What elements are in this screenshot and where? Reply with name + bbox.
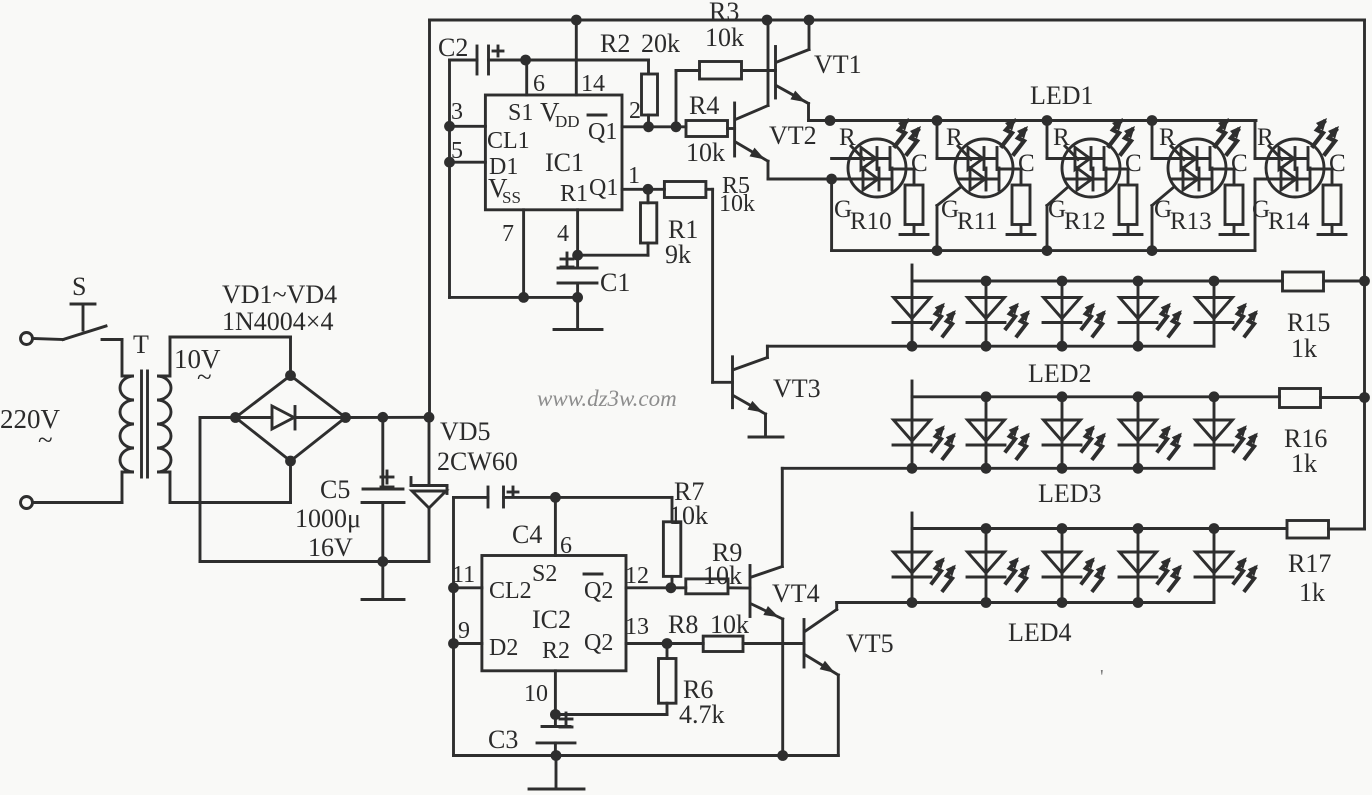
wire top supply rail (430, 19, 1365, 22)
resistor R7 (671, 497, 674, 521)
light emission arrows LED4-2 (1006, 557, 1030, 590)
wire pin 4 (576, 210, 579, 268)
svg-text:1000μ: 1000μ (295, 504, 361, 533)
node LED3 top rail x=1214 (1209, 391, 1220, 402)
svg-text:10k: 10k (710, 610, 749, 639)
resistor R15 (1283, 272, 1324, 291)
wire LED1 red anode rail (830, 119, 1256, 122)
resistor R9 (686, 579, 728, 594)
svg-text:~: ~ (38, 425, 53, 455)
svg-text:14: 14 (581, 71, 605, 97)
dual-colour flashing LED LED1-4 (1152, 121, 1234, 198)
svg-text:9k: 9k (665, 240, 691, 269)
wire C2 left lead (450, 59, 478, 62)
svg-text:1N4004×4: 1N4004×4 (222, 307, 333, 336)
svg-text:1k: 1k (1291, 334, 1317, 363)
node pin4 / R1 junction (572, 250, 583, 261)
light emission arrows LED4-3 (1082, 557, 1106, 590)
capacitor C2 (476, 46, 479, 74)
node VT1 emitter to LED1 rail (825, 115, 836, 126)
polarity mark C1 (561, 258, 573, 261)
polarity mark C5 (381, 476, 393, 479)
wire R14 to ground (1331, 225, 1334, 234)
svg-text:6: 6 (560, 533, 572, 559)
node LED4 top rail x=1062 (1057, 523, 1068, 534)
svg-text:1k: 1k (1299, 578, 1325, 607)
wire R17 to right rail (1329, 528, 1365, 531)
LED LED4-1 (893, 529, 931, 603)
wire C2 to R2 top (489, 59, 649, 62)
ground below R12 (1114, 233, 1142, 236)
wire VT2 node down to green bus (830, 179, 833, 251)
node C5 bottom junction (377, 556, 388, 567)
wire pin 12 (Q2bar) (626, 586, 686, 589)
node LED2 top rail x=986 (981, 276, 992, 287)
node VT2 collector on top rail (762, 15, 773, 26)
wire R16 to right rail (1321, 396, 1365, 399)
wire R15 to right rail (1324, 280, 1365, 283)
resistor R6 (666, 703, 669, 714)
node VT2 emitter to LED1 green lead (826, 174, 837, 185)
wire pin 11 (454, 586, 482, 589)
node VT1 collector on top rail (804, 15, 815, 26)
svg-text:VD1~VD4: VD1~VD4 (222, 280, 337, 309)
switch S actuator stem (82, 304, 85, 330)
wire C5 to ground (381, 562, 384, 599)
svg-text:VT5: VT5 (846, 629, 894, 658)
svg-text:C: C (911, 150, 928, 177)
svg-text:R: R (839, 124, 856, 151)
light emission arrows LED1-1 (895, 118, 921, 154)
svg-text:16V: 16V (308, 533, 353, 562)
LED LED4-2 (967, 529, 1005, 603)
wire switch fixed contact (102, 338, 122, 341)
wire LED4 cathode rail (837, 601, 1214, 604)
light emission arrows LED2-5 (1234, 303, 1258, 336)
wire to R3 left (676, 69, 700, 72)
svg-text:': ' (1100, 666, 1104, 688)
wire R8 to VT5 base (743, 642, 804, 645)
resistor R1 (647, 189, 650, 203)
transformer T primary winding (120, 340, 134, 503)
transistor VT2 (733, 103, 736, 156)
wire bridge output (346, 416, 430, 419)
svg-text:20k: 20k (641, 29, 680, 58)
IC U2 (IC2) body (482, 556, 626, 671)
svg-text:R14: R14 (1268, 208, 1310, 235)
light emission arrows LED4-4 (1158, 557, 1182, 590)
LED LED2-1 (893, 281, 931, 346)
resistor R17 (1287, 521, 1329, 539)
node bridge top vertex (285, 370, 296, 381)
switch S blade (63, 326, 106, 340)
node R16 on right rail (1359, 392, 1370, 403)
svg-text:Q1: Q1 (588, 119, 617, 145)
LED LED3-3 (1043, 397, 1081, 469)
svg-text:R2: R2 (600, 29, 630, 58)
svg-text:VD5: VD5 (440, 417, 491, 446)
node pin7 junction (518, 292, 529, 303)
svg-text:Q2: Q2 (584, 578, 613, 604)
node R7 bottom junction (666, 582, 677, 593)
LED LED3-2 (967, 397, 1005, 469)
wire green lead LED1-5 (1254, 179, 1257, 251)
svg-text:R1: R1 (560, 181, 588, 207)
wire C3 to ground (555, 756, 558, 788)
node bridge left vertex (230, 412, 241, 423)
wire green lead LED1-2 (936, 206, 939, 251)
wire green lead LED1-4 (1151, 206, 1154, 251)
svg-text:11: 11 (452, 562, 475, 588)
wire down left return (199, 418, 202, 562)
node R2 bottom junction (643, 121, 654, 132)
node LED4 top rail x=1214 (1209, 523, 1220, 534)
light emission arrows LED3-3 (1082, 425, 1106, 458)
wire stub above LED4 first anode (911, 513, 914, 529)
LED LED3-4 (1119, 397, 1157, 469)
dual-colour flashing LED LED1-5 (1255, 121, 1332, 198)
svg-text:4: 4 (557, 221, 569, 247)
svg-text:2CW60: 2CW60 (437, 447, 518, 476)
resistor R11 (1012, 185, 1030, 225)
ground below C1 (554, 328, 602, 331)
svg-text:9: 9 (458, 618, 470, 644)
LED LED3-5 (1195, 397, 1233, 469)
wire R5 right (706, 188, 713, 191)
svg-text:6: 6 (533, 71, 545, 97)
LED LED2-4 (1119, 281, 1157, 346)
svg-text:C3: C3 (488, 725, 518, 754)
wire pin 7 (522, 210, 525, 298)
node R15 on right rail (1359, 276, 1370, 287)
LED LED4-4 (1119, 529, 1157, 603)
node LED4 bottom rail x=912 (907, 597, 918, 608)
wire right supply rail (1363, 20, 1366, 529)
overbar of Q1bar (588, 114, 606, 117)
light emission arrows LED3-5 (1234, 425, 1258, 458)
svg-text:R12: R12 (1064, 208, 1106, 235)
polarity mark C3 (560, 718, 572, 721)
wire LED3 cathode rail (782, 467, 1214, 470)
ground below VT3 (749, 436, 783, 439)
light emission arrows LED1-3 (1109, 118, 1135, 154)
wire from top terminal to switch blade (33, 339, 64, 340)
wire pin 13 (Q2) (626, 642, 703, 645)
resistor R3 (700, 62, 742, 80)
node LED1 bottom rail at x=1047 (1042, 245, 1053, 256)
svg-text:R: R (1053, 124, 1070, 151)
node LED2 bottom rail x=912 (907, 341, 918, 352)
resistor R4 (686, 121, 728, 137)
wire IC2 bottom return (454, 754, 839, 757)
node LED1 top rail at x=1152 (1147, 115, 1158, 126)
svg-text:VT4: VT4 (772, 579, 820, 608)
ground below R13 (1220, 233, 1248, 236)
polarity mark C2 (493, 50, 503, 53)
ground below R10 (900, 233, 928, 236)
resistor R2 (647, 60, 650, 74)
svg-text:C5: C5 (320, 475, 350, 504)
wire stub above LED3 first anode (911, 381, 914, 397)
light emission arrows LED2-3 (1082, 303, 1106, 336)
light emission arrows LED3-4 (1158, 425, 1182, 458)
svg-text:C: C (1125, 150, 1142, 177)
transistor VT5 (803, 620, 806, 668)
capacitor C5 (381, 417, 384, 489)
svg-text:R15: R15 (1287, 308, 1330, 337)
light emission arrows LED2-4 (1158, 303, 1182, 336)
svg-text:R: R (946, 124, 963, 151)
node C1 bottom junction (572, 292, 583, 303)
transistor VT4 (749, 566, 752, 617)
node LED1 top rail at x=1047 (1042, 115, 1053, 126)
svg-text:S1: S1 (508, 100, 533, 126)
svg-text:10k: 10k (719, 191, 755, 217)
svg-text:2: 2 (629, 98, 641, 124)
node pin6 of IC2 junction (550, 492, 561, 503)
node LED2 top rail x=1214 (1209, 276, 1220, 287)
wire R12 to ground (1127, 225, 1130, 234)
wire R13 to ground (1233, 225, 1236, 234)
wire green lead LED1-3 (1046, 206, 1049, 251)
wire IC1 bottom return (450, 296, 578, 299)
wire pin 14 (575, 20, 578, 95)
wire LED2 cathode rail (767, 345, 1214, 348)
LED LED4-5 (1195, 529, 1233, 603)
svg-text:LED2: LED2 (1028, 359, 1092, 388)
wire left of IC2 (pins 11/9) (452, 497, 455, 755)
svg-text:LED3: LED3 (1038, 479, 1102, 508)
node pin9 junction (448, 638, 459, 649)
wire pin 5 (450, 161, 486, 164)
resistor R10 (905, 185, 923, 225)
node LED4 bottom rail x=986 (981, 597, 992, 608)
wire secondary top to bridge (170, 336, 291, 339)
node VT4 emitter junction (777, 750, 788, 761)
svg-text:Q2: Q2 (584, 630, 613, 656)
resistor R13 (1225, 185, 1243, 225)
node bridge right vertex (340, 412, 351, 423)
wire LED3 anode rail (912, 395, 1280, 398)
ground below C5 (362, 598, 404, 601)
dual-colour flashing LED LED1-3 (1047, 121, 1128, 198)
svg-text:R11: R11 (957, 208, 998, 235)
svg-text:10: 10 (524, 681, 548, 707)
wire pin 6 of IC2 (554, 497, 557, 555)
LED LED4-3 (1043, 529, 1081, 603)
node pin6 junction (520, 55, 531, 66)
node LED4 top rail x=986 (981, 523, 992, 534)
svg-text:R: R (1159, 124, 1176, 151)
svg-text:VT3: VT3 (773, 374, 821, 403)
node LED3 bottom rail x=1062 (1057, 463, 1068, 474)
wire bottom return to zener (200, 560, 429, 563)
node pin11 junction (448, 582, 459, 593)
node pin3 junction (444, 121, 455, 132)
svg-text:10k: 10k (686, 138, 725, 167)
capacitor C1 (558, 267, 597, 270)
svg-text:CL2: CL2 (489, 578, 532, 604)
node LED3 bottom rail x=1138 (1133, 463, 1144, 474)
node R1/R5 junction (643, 184, 654, 195)
node LED2 bottom rail x=1062 (1057, 341, 1068, 352)
wire pin 1 (Q1) (622, 188, 664, 191)
resistor R12 (1119, 185, 1137, 225)
svg-text:10k: 10k (705, 23, 744, 52)
svg-text:3: 3 (451, 99, 463, 125)
dual-colour flashing LED LED1-1 (832, 139, 914, 197)
transistor VT1 (774, 47, 777, 99)
node LED4 bottom rail x=1062 (1057, 597, 1068, 608)
wire green lead LED1-1 (832, 178, 851, 181)
node LED4 top rail x=1138 (1133, 523, 1144, 534)
wire down to bridge top vertex (289, 337, 292, 376)
node LED3 top rail x=1138 (1133, 391, 1144, 402)
svg-text:C4: C4 (512, 520, 542, 549)
wire pin10 to R6 (555, 713, 667, 716)
node pin10 junction (550, 709, 561, 720)
node LED2 bottom rail x=1138 (1133, 341, 1144, 352)
wire R9 to VT4 base (728, 586, 750, 589)
svg-text:10k: 10k (703, 561, 742, 590)
svg-text:R8: R8 (668, 610, 698, 639)
wire left supply rail (428, 20, 431, 417)
light emission arrows LED4-1 (932, 557, 956, 590)
node C5 top junction (377, 412, 388, 423)
terminal input top (21, 333, 33, 345)
svg-text:SS: SS (502, 188, 521, 207)
polarity mark C4 (508, 491, 518, 494)
capacitor C3 (542, 725, 570, 728)
wire bottom terminal to transformer primary (33, 501, 123, 504)
resistor R5 (664, 182, 706, 198)
switch S actuator bar (71, 303, 95, 306)
node VD5 top junction (424, 412, 435, 423)
LED LED3-1 (893, 397, 931, 469)
light emission arrows LED1-4 (1215, 118, 1241, 154)
svg-text:12: 12 (625, 563, 649, 589)
node pin14 on top rail (571, 15, 582, 26)
zener diode VD5 (428, 417, 431, 485)
svg-text:13: 13 (625, 614, 649, 640)
wire left of IC1 (pins 3/5) (448, 60, 451, 297)
resistor R14 (1323, 185, 1341, 225)
dual-colour flashing LED LED1-2 (937, 121, 1021, 198)
svg-text:5: 5 (451, 138, 463, 164)
node LED1 bottom rail at x=937 (932, 245, 943, 256)
wire pin 3 (450, 125, 486, 128)
wire R3 to VT1 base (742, 69, 776, 72)
terminal input bottom (21, 497, 33, 509)
node LED1 top rail at x=937 (932, 115, 943, 126)
wire pin 10 (554, 671, 557, 727)
wire C4 left lead (454, 496, 489, 499)
svg-text:S2: S2 (532, 561, 557, 587)
svg-text:1k: 1k (1291, 449, 1317, 478)
node pin5 junction (444, 157, 455, 168)
transistor VT3 (713, 381, 733, 384)
svg-text:IC1: IC1 (545, 148, 584, 177)
node LED3 bottom rail x=912 (907, 463, 918, 474)
capacitor C4 (487, 487, 490, 507)
svg-text:IC2: IC2 (532, 605, 571, 634)
light emission arrows LED3-1 (932, 425, 956, 458)
wire secondary bottom to bridge (170, 501, 291, 504)
ground below R11 (1007, 233, 1035, 236)
bridge rectifier VD1~VD4 diamond (236, 376, 346, 462)
svg-text:R: R (1257, 124, 1274, 151)
svg-text:C1: C1 (600, 268, 630, 297)
node LED2 bottom rail x=986 (981, 341, 992, 352)
wire R11 to ground (1020, 225, 1023, 234)
wire bridge left vertex (200, 416, 236, 419)
ground below C3 (529, 788, 584, 791)
node LED4 bottom rail x=1138 (1133, 597, 1144, 608)
wire LED1 green bus rail (832, 249, 1255, 252)
svg-text:R13: R13 (1170, 208, 1212, 235)
wire R10 to ground (913, 225, 916, 234)
svg-text:Q1: Q1 (589, 175, 618, 201)
node LED3 top rail x=986 (981, 391, 992, 402)
svg-text:R10: R10 (850, 208, 892, 235)
svg-text:4.7k: 4.7k (679, 700, 725, 729)
svg-text:R4: R4 (689, 91, 719, 120)
svg-text:VT2: VT2 (769, 121, 817, 150)
light emission arrows LED1-2 (1002, 118, 1028, 154)
node LED3 top rail x=1062 (1057, 391, 1068, 402)
svg-text:10k: 10k (669, 501, 708, 530)
light emission arrows LED1-5 (1313, 118, 1339, 154)
node LED1 bottom rail at x=1152 (1147, 245, 1158, 256)
light emission arrows LED2-2 (1006, 303, 1030, 336)
wire pin 2 (Q1bar) (622, 125, 686, 128)
LED LED2-3 (1043, 281, 1081, 346)
node R3/R4 junction (671, 121, 682, 132)
svg-text:C: C (1018, 150, 1035, 177)
IC U1 (IC1) body (485, 95, 622, 210)
svg-text:R2: R2 (542, 638, 570, 664)
wire pin 6 (525, 60, 528, 95)
svg-text:S: S (72, 272, 86, 301)
light emission arrows LED3-2 (1006, 425, 1030, 458)
transformer T core (140, 371, 143, 477)
node LED3 bottom rail x=986 (981, 463, 992, 474)
svg-text:R17: R17 (1288, 549, 1331, 578)
svg-text:VT1: VT1 (814, 50, 862, 79)
wire up to R3 (675, 71, 678, 127)
resistor R8 (703, 636, 743, 651)
svg-text:DD: DD (555, 112, 580, 131)
svg-text:7: 7 (502, 221, 514, 247)
wire LED4 anode rail (912, 527, 1287, 530)
wire up to bridge bottom vertex (289, 461, 292, 503)
svg-text:T: T (133, 330, 149, 359)
light emission arrows LED4-5 (1234, 557, 1258, 590)
node R6 top junction (662, 638, 673, 649)
wire C4 to R7 (504, 496, 673, 499)
wire LED2 anode rail (912, 280, 1283, 283)
svg-text:D2: D2 (489, 635, 518, 661)
overbar of Q2bar (584, 573, 602, 576)
svg-text:C: C (1231, 150, 1248, 177)
node LED2 top rail x=1062 (1057, 276, 1068, 287)
LED LED2-2 (967, 281, 1005, 346)
node LED2 top rail x=1138 (1133, 276, 1144, 287)
svg-text:LED1: LED1 (1030, 81, 1094, 110)
node bridge bottom vertex (285, 456, 296, 467)
wire R4 to VT2 base (728, 127, 735, 130)
light emission arrows LED2-1 (932, 303, 956, 336)
